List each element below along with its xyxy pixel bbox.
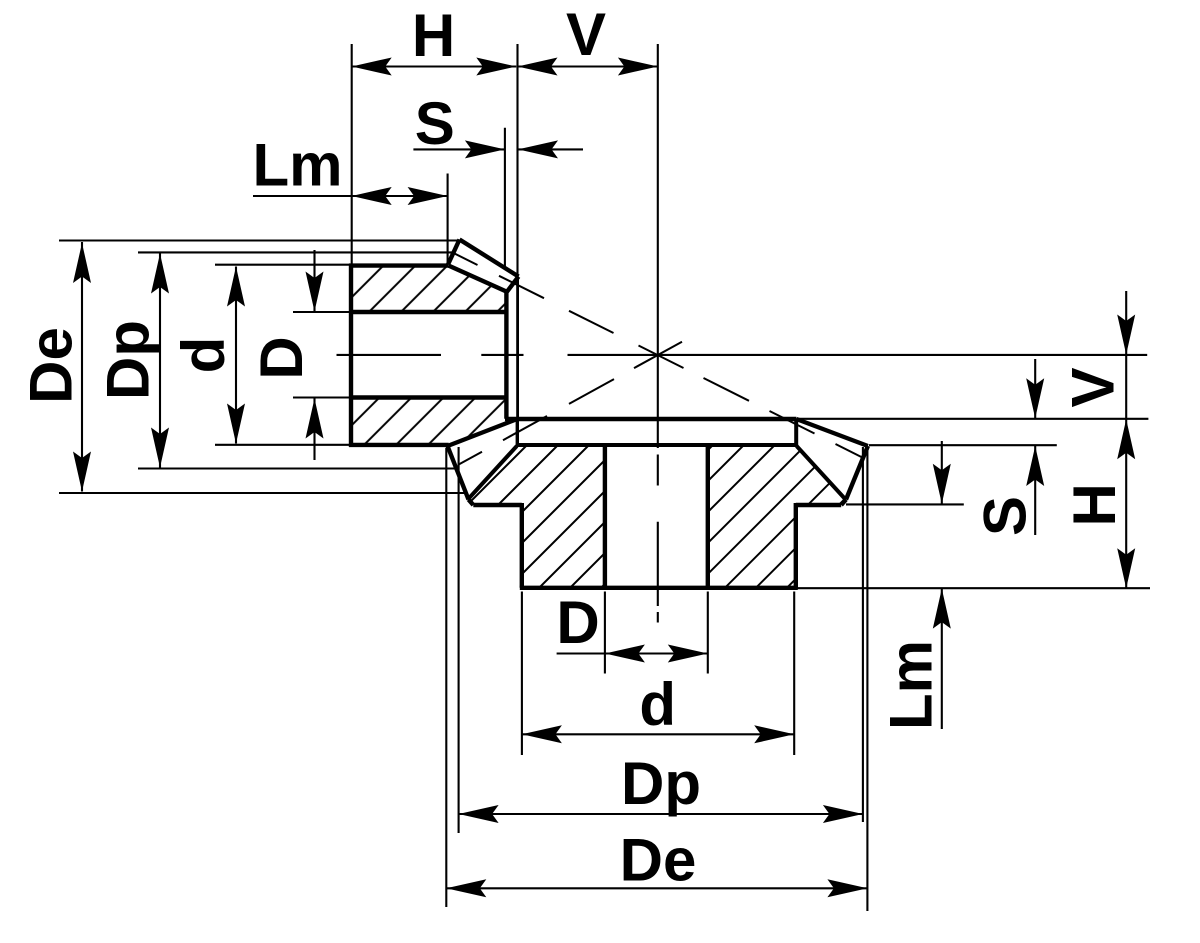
gear tooth root line [517,443,796,447]
extension line gear rim top right [846,503,964,505]
extension line pinion back face vertical [351,44,353,264]
dimension V top line with arrows [518,65,658,67]
svg-text:D: D [556,589,599,656]
pinion body left edge (back face) [349,264,353,448]
dimension S top arrows [413,148,505,150]
gear left tooth root diagonal [468,446,517,500]
gear bottom face [520,586,798,590]
extension line gear rim left below [521,592,523,756]
extension line De bottom [59,492,468,494]
pinion bottom hatched band (section) [351,398,506,446]
extension line D bore bottom [293,396,351,398]
extension line gear rim right below [793,592,795,756]
svg-text:Dp: Dp [94,320,161,400]
pinion bore bottom line [351,395,506,399]
pinion bore top line [351,310,506,314]
extension line pinion front tip vertical [504,128,506,270]
extension line gear bottom right [796,587,1150,589]
svg-text:S: S [971,496,1038,536]
extension line gear tooth tip right [869,444,1057,446]
svg-text:Lm: Lm [877,640,944,730]
dimension De bottom with arrows [446,887,867,889]
gear right tooth root diagonal [797,446,846,500]
pitch cone dashed line lower-left to upper-right [458,452,482,465]
gear bore left wall [603,445,607,588]
svg-text:Dp: Dp [621,750,701,817]
gear left tooth vertical edge [516,419,519,446]
extension line gear outer right [866,446,868,911]
dimension H top line with arrows [352,65,517,67]
svg-text:V: V [566,1,606,68]
dimension D bottom with arrows [557,652,708,654]
extension line d bottom [215,444,351,446]
dimension Lm top line with arrows [253,195,448,197]
dimension V and H right line [1125,291,1127,588]
pinion top tooth back face [448,240,460,265]
pinion top tooth front chamfer [507,277,519,292]
svg-text:De: De [620,827,697,894]
dimension De left with arrows [81,242,83,492]
extension line Dp bottom [138,467,460,469]
dimension d bottom with arrows [522,733,794,735]
gear left tooth outer face [448,446,469,500]
gear rim top right step [796,503,841,507]
gear right tooth upper face [796,419,868,446]
pinion top edge [349,263,449,267]
svg-text:S: S [415,90,455,157]
pinion front face [504,292,508,419]
gear rim left edge [520,503,524,588]
svg-text:H: H [1061,483,1128,526]
dimension D left outside arrows [313,250,315,312]
extension line d top [215,264,351,266]
pinion top root slant [449,266,507,292]
extension line gear top surface right [796,418,1148,420]
gear right hatched rim section [708,445,846,588]
gear right tooth outer face [846,446,868,500]
svg-text:Lm: Lm [253,132,343,199]
dimension S right outside arrows [1034,359,1036,418]
pinion axis centerline [337,354,442,356]
extension line gear pitch left [458,447,460,833]
extension line Lm hub right [447,174,449,264]
dimension Dp left with arrows [159,254,161,468]
extension line gear bore right below [707,592,709,674]
extension line De top [59,239,459,241]
extension line gear outer left [445,448,447,907]
gear rim top left step [473,503,522,507]
svg-text:d: d [170,337,237,374]
svg-text:d: d [639,671,676,738]
svg-text:H: H [412,2,455,69]
extension line gear bore left below [604,592,606,674]
gear axis centerline [657,44,659,448]
pinion top hatched band (section) [351,266,507,312]
svg-text:De: De [17,327,84,404]
svg-text:V: V [1059,367,1126,407]
pinion top tooth tip face [460,240,519,277]
dimension Lm right outside arrows [941,441,943,504]
gear left hatched rim section [468,445,605,588]
dimension d left with arrows [235,267,237,444]
gear left tooth upper face / pinion lower root (merged) [448,419,518,446]
gear right tooth vertical edge [794,419,798,446]
pinion bottom edge [349,443,449,447]
pitch cone dashed line upper-left to lower-right [454,253,478,265]
svg-text:D: D [248,336,315,379]
extension line D bore top [293,311,351,313]
gear right tooth chamfer [841,500,846,506]
extension line Dp top [138,251,454,253]
gear bore right wall [706,445,710,588]
gear rim right edge [794,503,798,588]
dimension Dp bottom with arrows [459,813,863,815]
extension line gear top-left corner vertical [516,44,518,277]
gear left tooth chamfer [469,500,474,506]
gear top surface [505,417,796,422]
extension line gear pitch right [862,447,864,822]
